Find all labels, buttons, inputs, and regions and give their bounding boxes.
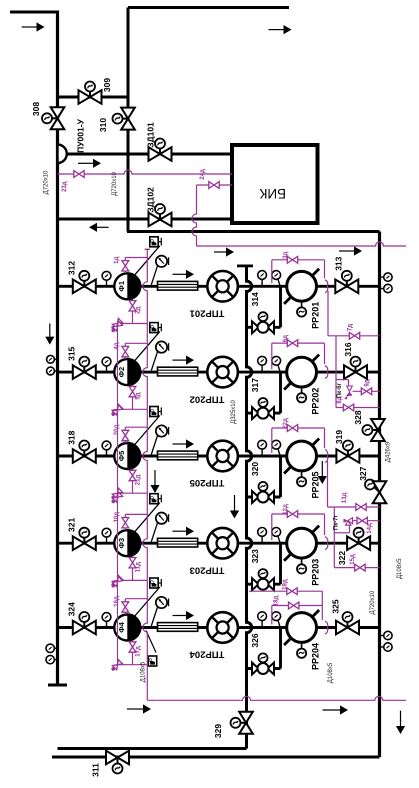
svg-text:ТПР203: ТПР203 [190,564,225,575]
svg-text:Пк-6г: Пк-6г [337,383,343,399]
svg-text:Д426х9: Д426х9 [386,441,392,462]
svg-text:5д: 5д [136,392,142,399]
svg-text:6д: 6д [283,335,289,342]
svg-text:7д: 7д [348,324,354,331]
svg-text:Д720х10: Д720х10 [370,590,376,614]
svg-text:Д108х5: Д108х5 [397,558,403,579]
svg-text:14д: 14д [367,523,373,534]
svg-text:РР202: РР202 [311,388,321,415]
svg-text:3д: 3д [283,252,289,259]
svg-text:ТПР205: ТПР205 [189,477,225,488]
svg-text:23д: 23д [62,181,68,192]
svg-text:РР204: РР204 [311,643,321,670]
svg-text:ТПР201: ТПР201 [189,308,225,319]
svg-text:Д325х10: Д325х10 [231,399,237,423]
svg-text:309: 309 [102,78,112,92]
svg-text:ЗД102: ЗД102 [146,187,156,213]
svg-text:328: 328 [353,410,363,424]
svg-text:12д: 12д [283,504,289,515]
svg-text:327: 327 [358,466,368,480]
svg-text:ТПР204: ТПР204 [189,649,225,660]
svg-text:310: 310 [98,118,108,132]
svg-text:Ф1: Ф1 [117,281,126,292]
svg-text:18д: 18д [274,596,280,607]
svg-text:317: 317 [250,378,260,392]
svg-text:Ф5: Ф5 [117,451,126,462]
svg-text:Ф2: Ф2 [117,367,126,378]
svg-text:Ф3: Ф3 [117,538,126,549]
svg-text:17д: 17д [136,646,142,657]
svg-text:Пк-7г: Пк-7г [334,514,340,530]
svg-text:11д: 11д [136,562,142,572]
svg-text:Д720х10: Д720х10 [112,171,118,195]
svg-text:22д: 22д [283,418,289,429]
svg-text:Ф4: Ф4 [117,621,126,632]
svg-text:314: 314 [250,292,260,306]
svg-text:319: 319 [334,430,344,444]
svg-text:316: 316 [343,342,353,356]
svg-text:РР203: РР203 [311,559,321,586]
svg-text:1д: 1д [114,257,120,264]
svg-text:24д: 24д [200,169,206,180]
svg-text:Д108х5: Д108х5 [328,662,334,683]
svg-text:308: 308 [31,102,41,116]
svg-text:323: 323 [250,549,260,563]
svg-text:15д: 15д [350,554,356,565]
svg-text:ПУ001-У: ПУ001-У [76,118,86,152]
svg-text:9д: 9д [365,379,371,386]
svg-text:326: 326 [250,633,260,647]
svg-text:Д108х5: Д108х5 [141,661,147,682]
svg-text:ТПР202: ТПР202 [190,393,225,404]
svg-text:312: 312 [67,261,77,275]
svg-text:БИК: БИК [259,186,286,201]
svg-text:329: 329 [213,724,223,738]
svg-text:315: 315 [67,346,77,360]
svg-text:РР201: РР201 [311,302,321,329]
svg-text:21д: 21д [136,475,142,486]
svg-text:РР205: РР205 [311,471,321,498]
svg-text:2д: 2д [136,307,142,314]
svg-text:322: 322 [337,551,347,565]
svg-text:324: 324 [67,602,77,616]
svg-text:320: 320 [250,462,260,476]
svg-text:13д: 13д [342,493,348,504]
svg-text:318: 318 [67,430,77,444]
svg-text:321: 321 [67,518,77,532]
svg-text:ЗД101: ЗД101 [146,122,156,148]
svg-text:313: 313 [334,256,344,270]
svg-text:19д: 19д [283,579,289,590]
svg-text:325: 325 [331,599,341,613]
svg-text:311: 311 [90,763,100,777]
svg-text:Д720х10: Д720х10 [44,170,50,194]
